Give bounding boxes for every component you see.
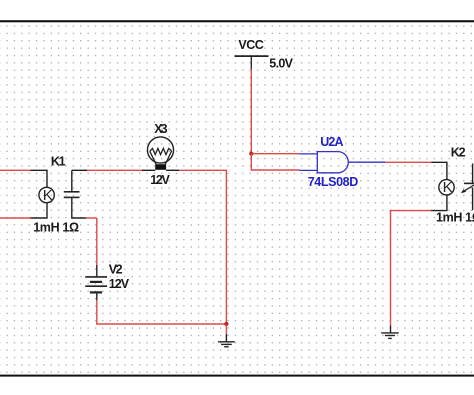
power VCC symbol xyxy=(235,56,269,69)
lamp X3 base xyxy=(155,164,166,170)
battery V2 leads xyxy=(96,265,98,300)
label K2 xyxy=(451,145,466,159)
sheet bottom border xyxy=(0,375,474,377)
wire: K2 coil bottom to ground column xyxy=(391,211,432,326)
relay K2 contact fixed plate xyxy=(464,182,474,184)
svg-text:U2A: U2A xyxy=(320,135,343,149)
lamp X3 leads xyxy=(142,169,179,171)
AND gate U2A output pin xyxy=(348,161,385,163)
junction node (center ground) xyxy=(224,322,228,326)
svg-text:1mH 1Ω: 1mH 1Ω xyxy=(436,211,474,225)
svg-text:5.0V: 5.0V xyxy=(269,56,293,70)
AND gate U2A body xyxy=(317,152,348,173)
wire: VCC down to junction xyxy=(250,69,252,154)
wire: junction stub to ground xyxy=(225,324,227,335)
relay K1 coil circle xyxy=(39,187,54,202)
relay K2 coil letter K xyxy=(443,179,453,196)
svg-text:74LS08D: 74LS08D xyxy=(308,175,359,189)
label VCC xyxy=(238,38,263,52)
wire: junction to gate input B xyxy=(251,154,299,170)
wire: left net to K1 coil top xyxy=(0,169,30,171)
relay K2 contact arrowhead xyxy=(461,189,466,193)
svg-text:K: K xyxy=(443,179,453,196)
svg-text:K1: K1 xyxy=(51,154,66,168)
relay K2 coil circle xyxy=(439,180,454,195)
label X3 xyxy=(154,122,167,136)
lamp X3 bulb circle xyxy=(147,137,173,163)
wire: left net to K1 coil bottom xyxy=(0,217,30,219)
junction node (VCC to gate) xyxy=(249,152,253,156)
value label 1mH 1ohm (K2) xyxy=(436,211,474,225)
lamp X3 envelope funnel xyxy=(150,151,172,164)
wire: lamp to center column xyxy=(179,170,226,324)
relay K2 contact leads xyxy=(472,164,474,211)
relay K2 coil leads xyxy=(431,162,447,210)
relay K1 coil leads xyxy=(30,170,47,218)
svg-text:X3: X3 xyxy=(154,122,167,136)
relay K2 contact movable arm xyxy=(462,185,474,192)
wire: gate output to K2 xyxy=(386,161,432,163)
wire: V2 bottom to ground junction xyxy=(97,300,227,324)
value label 74LS08D xyxy=(308,175,359,189)
ground GND2 (right) xyxy=(381,333,399,339)
svg-text:K2: K2 xyxy=(451,145,466,159)
wire: K1 contact top to lamp xyxy=(87,169,142,171)
wire: K1 contact bottom to V2 column xyxy=(86,217,97,219)
AND gate U2A input pins xyxy=(300,154,318,171)
label K1 xyxy=(51,154,66,168)
value label 12V (V2) xyxy=(109,277,130,291)
ground GND2 (right) stub xyxy=(390,325,392,333)
svg-text:V2: V2 xyxy=(109,263,123,277)
svg-text:12V: 12V xyxy=(150,173,170,187)
lamp X3 filament zigzag xyxy=(150,148,172,154)
wire: junction to gate input A xyxy=(251,153,299,155)
relay K1 contact leads xyxy=(72,170,87,218)
label V2 xyxy=(109,263,123,277)
svg-text:1mH 1Ω: 1mH 1Ω xyxy=(33,221,79,235)
value label 1mH 1ohm (K1) xyxy=(33,221,79,235)
value label 12V (X3) xyxy=(150,173,170,187)
label U2A xyxy=(320,135,343,149)
ground GND1 (center) xyxy=(218,334,235,347)
svg-text:VCC: VCC xyxy=(238,38,263,52)
svg-text:12V: 12V xyxy=(109,277,130,291)
sheet top border xyxy=(0,20,474,22)
relay K1 contact plates xyxy=(64,192,80,198)
battery V2 plates xyxy=(85,277,107,293)
value label 5.0V xyxy=(269,56,293,70)
svg-text:K: K xyxy=(43,187,53,204)
relay K1 coil letter K xyxy=(43,187,53,204)
wire: V2 column top xyxy=(96,218,98,265)
